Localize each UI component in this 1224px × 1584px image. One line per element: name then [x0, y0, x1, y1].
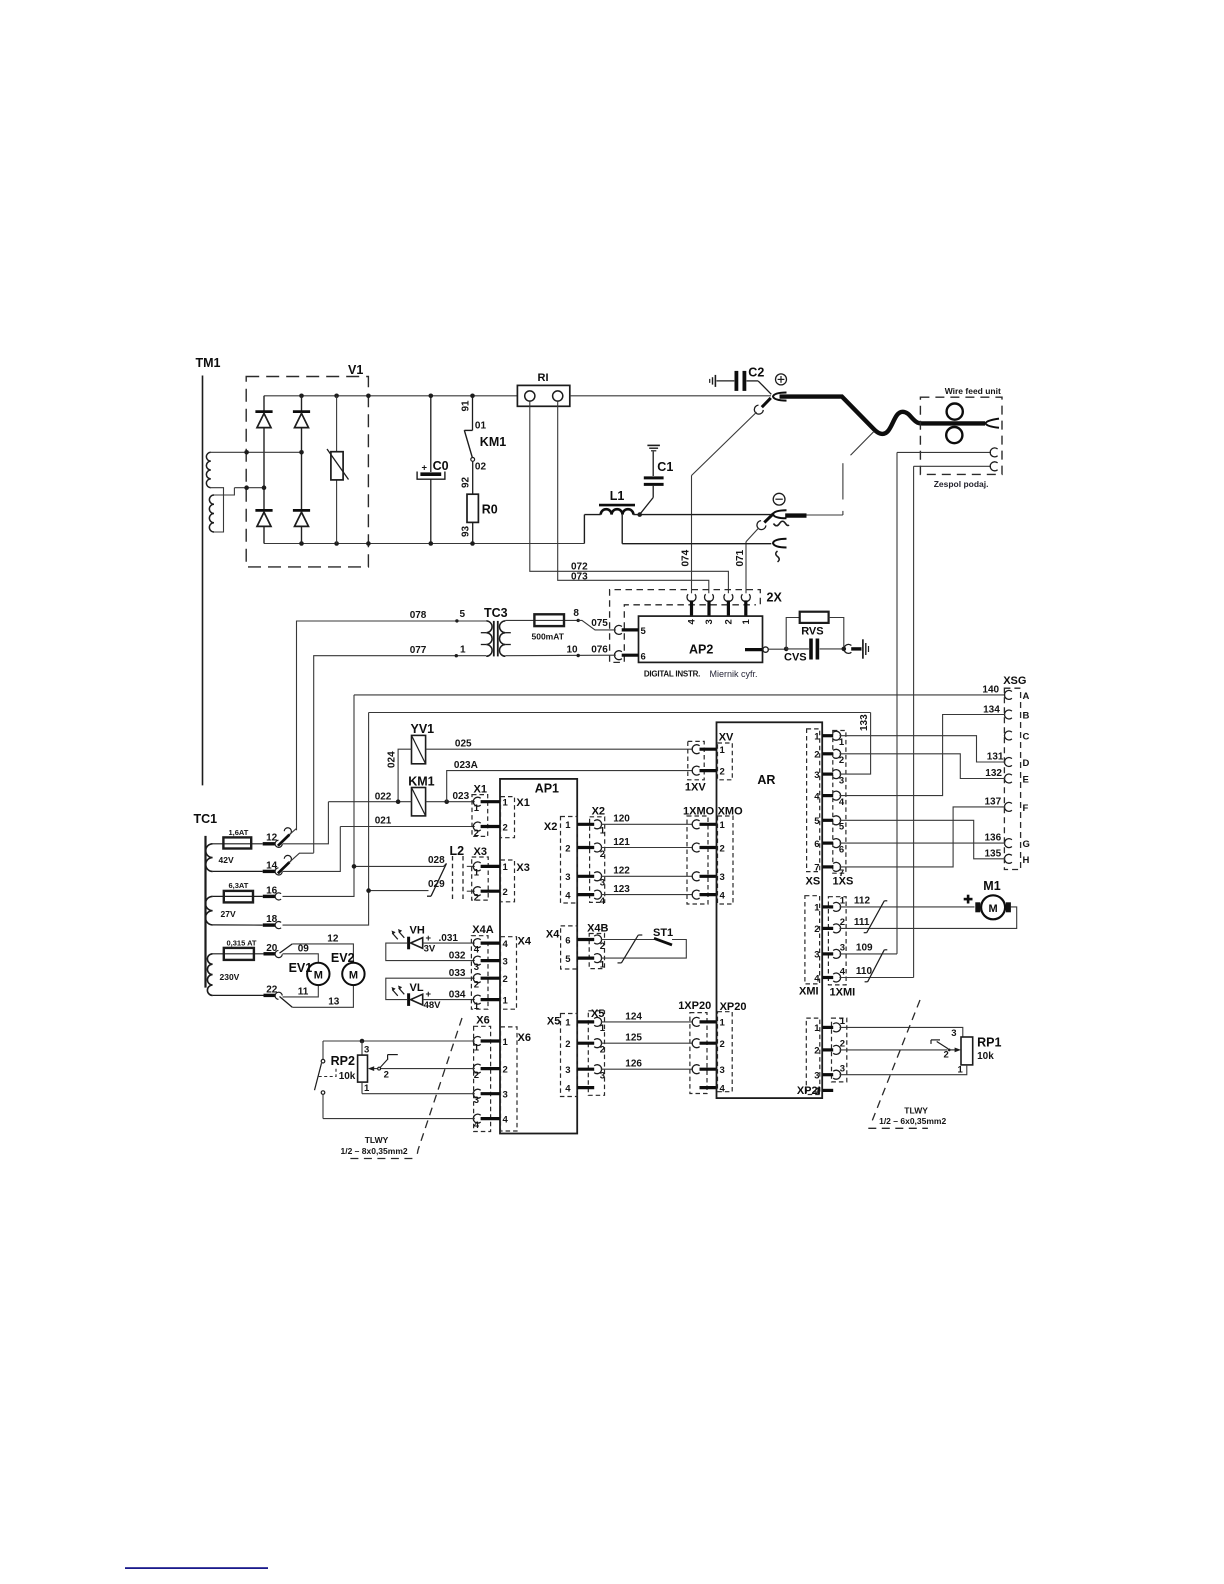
wire ST1 loop: [601, 940, 687, 959]
svg-text:4: 4: [474, 1120, 480, 1131]
connector XS pin 3: [822, 772, 833, 775]
svg-text:5: 5: [839, 822, 845, 833]
wire feed control 1 vertical: [896, 452, 898, 954]
connector X5 pin 4: [577, 1086, 594, 1089]
svg-text:1: 1: [474, 1001, 480, 1012]
svg-text:230V: 230V: [220, 972, 240, 982]
connector X3 pin 2: [473, 887, 480, 896]
connector sense 074 blade: [762, 398, 771, 407]
wire 023A: [447, 771, 693, 802]
connector XP20 pin 2: [700, 1042, 717, 1045]
wire TC3 to fuse: [505, 619, 578, 621]
wire terminal 12 through to 022: [283, 802, 329, 844]
svg-text:126: 126: [625, 1059, 642, 1070]
wire RP1 wiper: [840, 1049, 948, 1051]
wire 126: [601, 1068, 693, 1070]
svg-text:2: 2: [814, 924, 819, 935]
svg-text:G: G: [1023, 839, 1030, 850]
svg-text:033: 033: [449, 968, 466, 979]
connector feed control 2 socket: [990, 462, 997, 471]
svg-text:L1: L1: [610, 489, 625, 503]
connector XSG pin B socket: [1004, 710, 1011, 719]
transformer TC3 primary winding: [486, 621, 492, 656]
svg-text:10: 10: [567, 645, 579, 656]
svg-text:022: 022: [375, 791, 392, 802]
svg-text:C1: C1: [657, 460, 673, 474]
svg-text:028: 028: [428, 855, 445, 866]
svg-text:024: 024: [387, 751, 398, 768]
diode V1-D4: [293, 509, 310, 512]
varistor V1-RU vertical wire: [336, 396, 338, 544]
svg-text:4: 4: [720, 1083, 726, 1094]
wire ST1 upper: [601, 939, 654, 941]
connector X3 pin 1: [473, 862, 480, 871]
connector XMI pin 4: [822, 976, 833, 979]
connector X2 pin 3: [577, 875, 594, 878]
connector XP2I pin 4: [822, 1089, 833, 1092]
contactor contact KM1: [472, 396, 474, 430]
svg-text:3: 3: [474, 1095, 479, 1106]
svg-text:CVS: CVS: [784, 652, 807, 664]
svg-text:500mAT: 500mAT: [532, 632, 565, 642]
connector XP20 pin 3: [700, 1068, 717, 1071]
connector 2X pin 1: [744, 600, 747, 616]
wire 13: [292, 985, 353, 1007]
svg-text:3: 3: [600, 878, 605, 889]
svg-text:X5: X5: [591, 1008, 604, 1020]
svg-text:10k: 10k: [977, 1051, 994, 1062]
svg-text:121: 121: [613, 837, 630, 848]
disconnect blade X4B: [621, 935, 638, 963]
roller upper: [947, 404, 963, 420]
svg-text:1: 1: [958, 1065, 964, 1076]
wire 075: [578, 620, 616, 630]
connector 1XMO pin 2 socket: [692, 843, 699, 852]
svg-text:3: 3: [503, 956, 508, 967]
svg-text:X4A: X4A: [472, 924, 493, 936]
fan motor EV2: [342, 963, 364, 985]
svg-text:3: 3: [600, 1071, 605, 1082]
wire 025: [426, 748, 693, 750]
wire minus cable route: [807, 514, 843, 516]
svg-text:RP1: RP1: [977, 1036, 1001, 1050]
svg-text:VH: VH: [410, 925, 425, 937]
svg-text:RVS: RVS: [801, 626, 823, 638]
connector X6 pin 3: [473, 1089, 480, 1098]
connector 2X pin 1 socket: [741, 594, 750, 601]
connector 1XP20 external dashed box: [690, 1013, 707, 1094]
wire 123: [601, 894, 693, 896]
svg-text:125: 125: [625, 1033, 642, 1044]
terminal 20 pin: [264, 952, 276, 955]
svg-text:1: 1: [600, 826, 606, 837]
potentiometer RP2: [361, 1041, 363, 1055]
svg-text:AP1: AP1: [535, 782, 559, 796]
motor M1 plus: [964, 898, 973, 901]
svg-text:3: 3: [814, 950, 819, 961]
disconnect blade 109/110: [868, 950, 885, 982]
wire 023: [426, 801, 475, 803]
motor M1 brushes: [975, 902, 980, 912]
svg-text:1: 1: [720, 820, 726, 831]
footer rule: [125, 1567, 268, 1569]
svg-text:075: 075: [591, 618, 608, 629]
connector 1XMO pin 1 socket: [692, 820, 699, 829]
connector 1XV pin 1 socket: [692, 745, 699, 754]
wire 132 XS.2 to XSG E: [840, 754, 1006, 779]
connector XMO pin 3: [700, 875, 717, 878]
svg-text:122: 122: [613, 866, 630, 877]
motor M1: [981, 895, 1005, 919]
connector X6 inner dashed box: [501, 1027, 518, 1131]
wire 024: [398, 749, 411, 802]
cable TLWY left leader: [417, 1018, 463, 1159]
wire bridge column 2: [301, 396, 303, 544]
svg-text:034: 034: [449, 989, 466, 1000]
svg-text:RP2: RP2: [331, 1054, 355, 1068]
connector XMO pin 4: [700, 893, 717, 896]
wire 125: [601, 1042, 693, 1044]
svg-text:110: 110: [856, 966, 873, 977]
connector 2X pin 3: [707, 600, 710, 616]
svg-text:2: 2: [474, 980, 479, 991]
wire X6.4 return: [323, 1118, 475, 1120]
svg-text:3: 3: [503, 1090, 508, 1101]
svg-text:131: 131: [987, 752, 1004, 763]
svg-text:133: 133: [859, 714, 870, 731]
node bottom bus junctions: [299, 541, 304, 546]
connector X4B pin 5: [577, 956, 594, 959]
svg-text:XS: XS: [806, 876, 821, 888]
connector XMI pin 3: [822, 952, 833, 955]
svg-text:M: M: [349, 970, 358, 982]
resistor R0: [467, 494, 478, 522]
wire AP2 output: [768, 648, 786, 650]
svg-text:3: 3: [565, 872, 570, 883]
wire RP2 pin1 to X6.3: [362, 1093, 475, 1095]
svg-text:2: 2: [720, 1039, 725, 1050]
svg-text:+: +: [426, 989, 432, 1000]
svg-text:ST1: ST1: [653, 927, 673, 939]
svg-text:5: 5: [460, 609, 466, 620]
svg-text:2: 2: [840, 1039, 845, 1050]
connector XSG pin F socket: [1004, 802, 1011, 811]
svg-text:1/2 – 6x0,35mm2: 1/2 – 6x0,35mm2: [879, 1116, 946, 1126]
transformer TM1 secondary winding lower: [209, 495, 214, 532]
LED VH: [407, 937, 410, 950]
connector welding plus socket: [773, 393, 787, 401]
svg-text:X2: X2: [592, 806, 605, 818]
svg-text:XV: XV: [719, 732, 734, 744]
svg-text:10k: 10k: [339, 1071, 356, 1082]
connector XP2I pin 3: [822, 1073, 833, 1076]
solenoid valve YV1 coil: [412, 735, 426, 763]
terminal 22 blade: [280, 997, 293, 1008]
wire 122: [601, 875, 693, 877]
svg-text:X4: X4: [518, 936, 532, 948]
svg-text:2: 2: [503, 974, 508, 985]
roller lower: [946, 427, 962, 443]
svg-text:RI: RI: [538, 372, 549, 384]
wire 076: [505, 654, 615, 657]
terminal 22 pin: [264, 994, 276, 997]
svg-text:1: 1: [364, 1083, 370, 1094]
svg-text:2: 2: [720, 843, 725, 854]
rectifier module V1 dashed outline: [246, 377, 368, 567]
svg-text:1: 1: [840, 896, 846, 907]
wire L1 output to minus connector: [633, 514, 771, 516]
svg-text:3: 3: [565, 1065, 570, 1076]
connector X4A pin 2: [473, 974, 480, 983]
wire AC input lower (to bridge col 1): [234, 487, 264, 489]
connector XSG pin C socket: [1004, 731, 1011, 740]
svg-text:27V: 27V: [221, 909, 236, 919]
svg-text:VL: VL: [410, 982, 424, 994]
svg-text:2: 2: [840, 917, 845, 928]
svg-text:1/2 – 8x0,35mm2: 1/2 – 8x0,35mm2: [341, 1146, 408, 1156]
wire 133 long horizontal: [369, 712, 871, 714]
svg-text:4: 4: [814, 973, 820, 984]
wire L1 left lead: [584, 514, 600, 516]
connector 1XP20 pin 2 socket: [692, 1039, 699, 1048]
svg-text:EV2: EV2: [331, 951, 355, 965]
svg-text:02: 02: [475, 462, 487, 473]
svg-text:6: 6: [814, 839, 819, 850]
connector X2 pin 4: [577, 893, 594, 896]
cable welding minus stub: [785, 513, 806, 517]
svg-text:12: 12: [327, 933, 339, 944]
svg-text:4: 4: [687, 619, 698, 625]
svg-text:1: 1: [474, 868, 480, 879]
connector XP2I pin 1: [822, 1026, 833, 1029]
polarity symbol plus: [776, 374, 787, 385]
link RP2 switch dashed: [319, 1069, 337, 1077]
svg-text:1: 1: [814, 732, 820, 743]
svg-text:132: 132: [985, 768, 1002, 779]
svg-text:6: 6: [565, 935, 570, 946]
wire 27V lower to terminal 18: [213, 924, 263, 926]
connector CVS ground socket: [844, 644, 851, 653]
svg-text:TLWY: TLWY: [904, 1106, 928, 1116]
transformer TC1 winding 27V: [205, 896, 212, 925]
terminal 12 blade: [278, 835, 290, 846]
wire 112: [840, 906, 975, 908]
wire 111: [840, 907, 1017, 929]
svg-text:3: 3: [720, 1065, 725, 1076]
svg-text:20: 20: [266, 943, 278, 954]
connector 2X pin 2 socket: [724, 594, 733, 601]
wire 029: [369, 890, 429, 892]
svg-text:4: 4: [503, 1114, 509, 1125]
connector 2X pin 4: [690, 600, 693, 616]
svg-text:3V: 3V: [424, 944, 436, 955]
connector XV pin 1: [700, 748, 717, 751]
node 023/023A junction: [444, 799, 449, 804]
connector 1XP20 pin 3 socket: [692, 1065, 699, 1074]
wire terminal 14 through to 021: [283, 827, 341, 872]
connector X1 external dashed box: [472, 795, 488, 837]
svg-text:X4: X4: [546, 929, 560, 941]
terminal 16 pin: [263, 895, 275, 898]
wire 033: [386, 978, 475, 999]
wire 136 XS.6 to XSG G: [840, 842, 1006, 844]
svg-text:1: 1: [720, 1018, 726, 1029]
svg-text:1: 1: [503, 798, 509, 809]
wire 230V lower to terminal 22: [213, 994, 264, 996]
terminal 12 mate arc: [284, 826, 293, 835]
wiper adjust diagonal: [380, 1059, 388, 1068]
svg-text:120: 120: [613, 814, 630, 825]
connector electrode fork: [986, 419, 1000, 428]
connector AP2 pin 5: [622, 628, 639, 631]
svg-text:1XV: 1XV: [685, 782, 706, 794]
connector welding minus socket: [773, 510, 787, 518]
connector XSG dashed box: [1004, 688, 1020, 869]
decoration spare squiggle: [776, 551, 780, 562]
svg-text:4: 4: [814, 791, 820, 802]
svg-text:XMI: XMI: [799, 986, 819, 998]
svg-text:1: 1: [565, 820, 571, 831]
cable welding plus to wire feed unit: [780, 397, 986, 434]
LED VL: [407, 993, 410, 1006]
svg-text:L2: L2: [450, 844, 465, 858]
connector X1 pin 2: [473, 822, 480, 831]
connector XS inner dashed box: [807, 729, 820, 872]
svg-text:8: 8: [573, 608, 579, 619]
wire feed control 2 vertical: [913, 466, 915, 977]
wire 110: [840, 977, 914, 979]
wire 121: [601, 847, 693, 849]
svg-text:2: 2: [600, 941, 605, 952]
wire bridge column 1: [263, 396, 265, 544]
wire 09: [283, 954, 319, 963]
connector sense 071 blade: [764, 514, 773, 523]
wire feed control 1: [897, 451, 991, 453]
connector XS pin 1: [822, 734, 833, 737]
connector X1 inner dashed box: [501, 797, 515, 838]
svg-text:140: 140: [982, 684, 999, 695]
connector X5 pin 3: [577, 1068, 594, 1071]
node 022/024 junction: [396, 799, 401, 804]
node terminal 8: [577, 619, 580, 622]
wire RP1 pin1: [840, 1065, 967, 1075]
ground pin: [851, 647, 861, 650]
wire 021: [340, 826, 475, 828]
svg-text:X6: X6: [476, 1015, 489, 1027]
transformer TC3 core: [493, 621, 495, 657]
svg-text:E: E: [1023, 775, 1029, 786]
fuse 500mAT: [534, 614, 564, 626]
connector 2X inner dashed outline: [624, 605, 756, 662]
transformer TC1 core: [204, 836, 206, 988]
connector X5 inner dashed box: [561, 1014, 578, 1097]
svg-text:93: 93: [461, 525, 472, 537]
wire 124: [601, 1021, 693, 1023]
transformer TC1 winding 42V: [206, 844, 213, 872]
connector 1XMO pin 4 socket: [692, 890, 699, 899]
wire 078: [297, 621, 487, 830]
svg-text:M: M: [314, 970, 323, 982]
connector 2X pin 4 socket: [687, 594, 696, 601]
wire RVS left branch: [786, 618, 800, 649]
wire 27V to fuse: [213, 895, 263, 897]
svg-text:42V: 42V: [219, 855, 234, 865]
connector X4A pin 4: [473, 939, 480, 948]
svg-text:2X: 2X: [767, 591, 783, 605]
varistor V1-RU: [331, 452, 343, 480]
connector X5 pin 1: [577, 1020, 594, 1023]
svg-text:7: 7: [839, 868, 844, 879]
connector X4A pin 1: [473, 995, 480, 1004]
connector 2X outer dashed outline: [610, 590, 761, 663]
svg-text:2: 2: [565, 1039, 570, 1050]
svg-text:111: 111: [854, 917, 870, 928]
connector XP2I inner dashed box: [806, 1018, 820, 1094]
node RVS right: [842, 647, 847, 652]
svg-text:3: 3: [839, 775, 844, 786]
wire winding link: [211, 488, 224, 532]
svg-text:X3: X3: [474, 846, 487, 858]
svg-text:XP20: XP20: [720, 1001, 747, 1013]
svg-text:D: D: [1023, 758, 1030, 769]
connector X6 external dashed box: [474, 1026, 491, 1131]
connector feed control 1 socket: [990, 448, 997, 457]
wire X6.1 to RP2: [323, 1040, 475, 1042]
svg-text:032: 032: [449, 950, 466, 961]
terminal 20 blade: [280, 944, 293, 953]
connector X4A external dashed box: [471, 936, 488, 1010]
wire RP2 wiper: [372, 1068, 475, 1070]
wire 137 XS.7 to XSG F: [840, 807, 1006, 867]
svg-text:TC3: TC3: [484, 606, 508, 620]
shunt RI terminal circles: [525, 391, 535, 401]
svg-text:1XMI: 1XMI: [830, 987, 856, 999]
svg-text:1: 1: [600, 959, 606, 970]
choke L2 dashed: [452, 856, 454, 902]
potentiometer RP1: [961, 1037, 973, 1065]
svg-text:5: 5: [641, 626, 647, 637]
svg-text:6: 6: [641, 651, 646, 662]
svg-text:136: 136: [985, 833, 1002, 844]
svg-text:1: 1: [503, 995, 509, 1006]
wire RVS right branch: [829, 618, 844, 649]
connector XV inner dashed box: [718, 743, 733, 780]
connector X4A pin 3: [473, 956, 480, 965]
svg-text:DIGITAL INSTR.: DIGITAL INSTR.: [644, 670, 700, 679]
svg-text:2: 2: [600, 1045, 605, 1056]
polarity symbol minus: [773, 493, 785, 505]
terminal 12 socket: [274, 840, 283, 849]
svg-text:2: 2: [474, 893, 479, 904]
connector X4B pin 6: [577, 938, 594, 941]
connector AP2 pin 6: [622, 654, 639, 657]
svg-text:109: 109: [856, 943, 873, 954]
svg-text:3: 3: [840, 943, 845, 954]
connector 2X pin 2: [727, 600, 730, 616]
resistor RVS: [800, 612, 829, 623]
connector X6 pin 1: [473, 1037, 480, 1046]
svg-text:2: 2: [503, 1064, 508, 1075]
capacitor C2: [717, 380, 735, 382]
wire 034: [423, 999, 475, 1001]
connector XMI pin 2: [822, 927, 833, 930]
svg-text:2: 2: [814, 1046, 819, 1057]
ground symbol at C2: [714, 375, 716, 387]
svg-text:YV1: YV1: [411, 722, 435, 736]
connector XMI pin 1: [822, 905, 833, 908]
svg-text:X1: X1: [474, 784, 487, 796]
disconnect blade 112/111: [867, 901, 885, 933]
